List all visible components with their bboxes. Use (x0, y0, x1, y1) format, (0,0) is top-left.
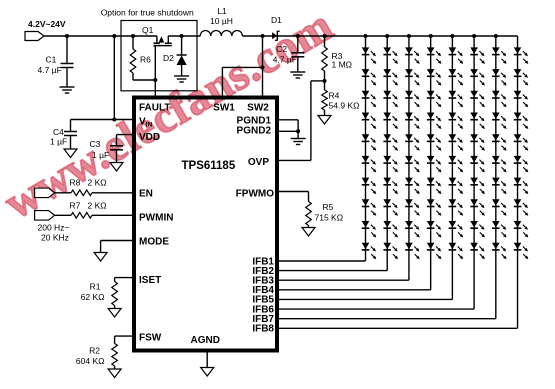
svg-text:715 KΩ: 715 KΩ (315, 213, 344, 223)
svg-text:D2: D2 (163, 53, 174, 63)
svg-text:1 µF: 1 µF (92, 150, 109, 160)
svg-text:VDD: VDD (139, 132, 160, 143)
svg-text:FSW: FSW (139, 333, 162, 344)
svg-text:C3: C3 (90, 139, 101, 149)
svg-text:4.7 µF: 4.7 µF (38, 65, 62, 75)
svg-text:2 KΩ: 2 KΩ (88, 178, 107, 188)
svg-text:TPS61185: TPS61185 (182, 160, 236, 172)
svg-text:R1: R1 (90, 282, 101, 292)
svg-text:AGND: AGND (191, 335, 220, 346)
svg-text:Option for true shutdown: Option for true shutdown (101, 8, 194, 18)
svg-text:FPWMO: FPWMO (236, 189, 275, 200)
svg-text:MODE: MODE (139, 237, 169, 248)
svg-text:2 KΩ: 2 KΩ (88, 201, 107, 211)
svg-text:4.2V~24V: 4.2V~24V (28, 19, 66, 29)
svg-text:R6: R6 (140, 55, 151, 65)
svg-text:62 KΩ: 62 KΩ (81, 292, 105, 302)
svg-text:200 Hz~: 200 Hz~ (38, 223, 70, 233)
svg-text:C1: C1 (46, 55, 57, 65)
svg-text:L1: L1 (217, 6, 227, 16)
svg-text:1 MΩ: 1 MΩ (332, 60, 353, 70)
svg-text:R5: R5 (323, 202, 334, 212)
svg-text:ISET: ISET (139, 275, 161, 286)
svg-text:R2: R2 (89, 346, 100, 356)
svg-text:PWMIN: PWMIN (139, 213, 173, 224)
svg-text:10 µH: 10 µH (210, 16, 233, 26)
svg-text:D1: D1 (271, 15, 282, 25)
svg-text:4.7 µF: 4.7 µF (273, 55, 297, 65)
svg-text:54.9 KΩ: 54.9 KΩ (329, 101, 360, 111)
svg-text:PGND2: PGND2 (237, 126, 272, 137)
svg-text:R8: R8 (70, 178, 81, 188)
svg-text:20 KHz: 20 KHz (41, 232, 69, 242)
svg-text:OVP: OVP (248, 157, 269, 168)
svg-text:Q1: Q1 (142, 25, 154, 35)
svg-text:SW1: SW1 (213, 103, 235, 114)
svg-text:C4: C4 (53, 127, 64, 137)
svg-text:SW2: SW2 (247, 103, 269, 114)
svg-text:FAULT: FAULT (139, 103, 170, 114)
svg-text:604 KΩ: 604 KΩ (76, 356, 105, 366)
svg-text:1 µF: 1 µF (50, 137, 67, 147)
svg-text:R7: R7 (70, 201, 81, 211)
svg-text:EN: EN (139, 189, 153, 200)
svg-text:R4: R4 (329, 91, 340, 101)
svg-text:IFB8: IFB8 (252, 324, 274, 335)
svg-text:C2: C2 (276, 44, 287, 54)
